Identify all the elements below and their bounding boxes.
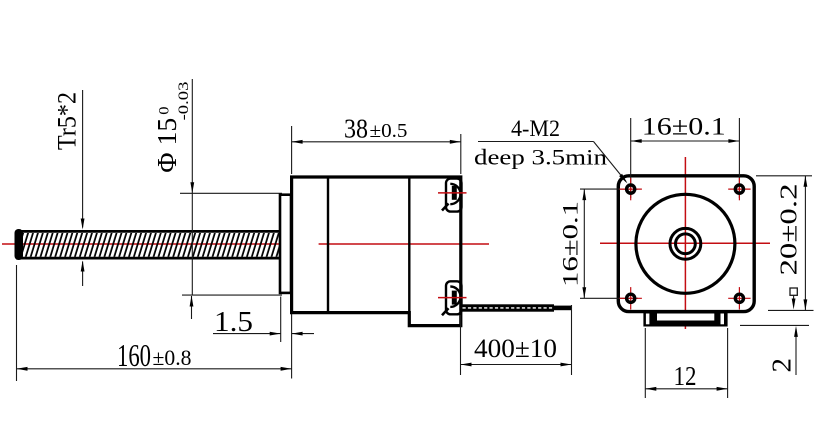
front view red vertical centerline: [684, 157, 686, 329]
leadscrew left end cap: [15, 229, 24, 260]
dimension 160+-0.8: [17, 265, 292, 381]
body section line 1: [327, 177, 329, 313]
svg-text:-0.03: -0.03: [176, 82, 192, 121]
svg-text:Φ 15: Φ 15: [152, 118, 182, 173]
shaft inner circle: [676, 234, 696, 254]
screw pocket bottom: [438, 281, 467, 315]
svg-text:0: 0: [157, 106, 173, 114]
pilot circle D15: [636, 194, 735, 293]
motor pilot boss: [280, 195, 291, 293]
mounting hole top-left: [620, 178, 642, 200]
extension line top of boss: [180, 192, 282, 194]
svg-text:±0.8: ±0.8: [153, 345, 192, 370]
svg-text:2: 2: [767, 358, 797, 373]
front view red horizontal centerline: [600, 242, 770, 244]
cable tail: [553, 306, 572, 311]
dimension 1.5: [213, 297, 314, 343]
leadscrew hatched thread body: [16, 233, 279, 257]
svg-text:160: 160: [117, 337, 151, 373]
front flange square: [618, 176, 754, 312]
dimension 12 (connector width): [645, 328, 727, 398]
mounting hole top-right: [728, 178, 750, 200]
cable dashed core: [463, 307, 554, 309]
connector body: [643, 312, 727, 327]
svg-text:deep 3.5min: deep 3.5min: [474, 145, 607, 170]
cable band: [461, 304, 554, 311]
screw pocket top: [438, 179, 467, 212]
dimension D15 0/-0.03 leader: [180, 79, 282, 319]
dimension 16+-0.1 left (vertical): [558, 189, 587, 298]
svg-text:16±0.1: 16±0.1: [642, 114, 726, 141]
svg-text:4-M2: 4-M2: [511, 116, 560, 141]
wire: side-view red centerline (right segment): [319, 243, 489, 245]
mounting hole bottom-right: [728, 287, 750, 309]
label Tr5*2 leader line: [81, 90, 85, 286]
dimension D15 text: [152, 82, 192, 173]
squareness symbol: [790, 288, 797, 310]
leadscrew bottom edge: [16, 257, 279, 260]
dimension 400+-10: [461, 305, 572, 375]
body section line 2 (rear cap face): [408, 177, 410, 326]
label 4-M2 deep 3.5min: [474, 116, 629, 185]
shaft outer circle: [670, 228, 701, 259]
svg-text:20±0.2: 20±0.2: [777, 184, 803, 276]
motor body outline: [292, 177, 461, 326]
dimension 16+-0.1 top: [631, 114, 740, 143]
svg-text:1.5: 1.5: [214, 307, 253, 338]
wire: side-view red centerline (left segment): [2, 243, 279, 245]
extension line bottom of boss: [182, 294, 282, 296]
svg-text:Tr5*2: Tr5*2: [53, 92, 82, 150]
dimension 20+-0.2 right (vertical): [756, 176, 814, 311]
hole extension lines (16 dims): [630, 118, 632, 198]
svg-text:±0.5: ±0.5: [370, 120, 408, 142]
svg-text:400±10: 400±10: [474, 334, 557, 363]
mounting hole bottom-left: [620, 287, 642, 309]
dimension 38+-0.5: [292, 114, 461, 175]
dimension 2 (connector height): [740, 325, 809, 375]
svg-text:16±0.1: 16±0.1: [558, 201, 583, 287]
svg-text:12: 12: [674, 360, 697, 391]
svg-text:38: 38: [344, 114, 368, 144]
leadscrew top edge: [16, 230, 279, 233]
